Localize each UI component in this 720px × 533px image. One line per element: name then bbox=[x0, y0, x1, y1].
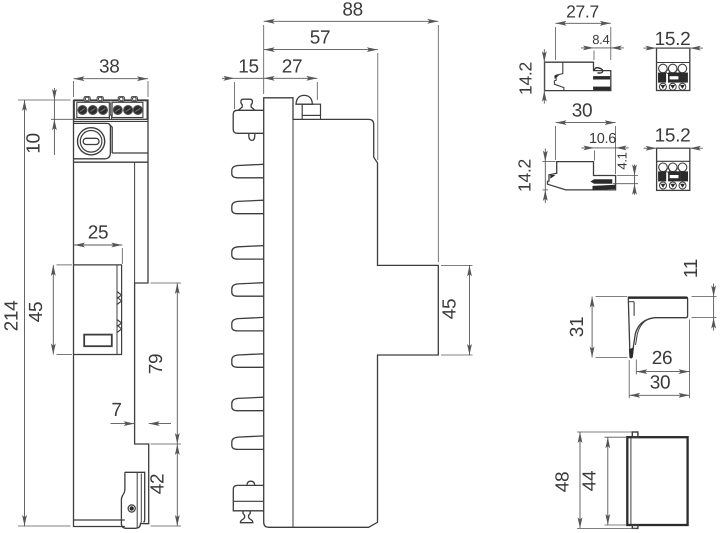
svg-text:27.7: 27.7 bbox=[566, 2, 599, 22]
front view ledge lines bbox=[74, 153, 149, 283]
dimension 14.2 upper bbox=[516, 49, 547, 103]
cooling fin 1 bbox=[232, 164, 264, 178]
cooling fin 6 bbox=[232, 354, 264, 368]
svg-text:25: 25 bbox=[88, 223, 109, 244]
cooling fin 8 bbox=[232, 436, 264, 450]
dimension 57 bbox=[264, 27, 378, 160]
terminal front view lower (15.2) bbox=[657, 148, 690, 190]
label window bbox=[84, 335, 112, 347]
svg-text:31: 31 bbox=[567, 317, 588, 338]
dimension 15 and 27 bbox=[222, 57, 317, 110]
svg-text:10.6: 10.6 bbox=[589, 131, 616, 147]
terminal front view upper (15.2) bbox=[657, 48, 690, 90]
wire clamp port 2 bbox=[97, 97, 103, 102]
DIN rail clip bbox=[121, 472, 148, 528]
terminal screw 2 bbox=[88, 106, 97, 115]
dimension 214 bbox=[2, 100, 71, 526]
svg-text:26: 26 bbox=[652, 348, 673, 369]
svg-text:57: 57 bbox=[310, 27, 331, 48]
dimension 11 bbox=[681, 259, 717, 331]
svg-text:42: 42 bbox=[148, 474, 169, 495]
svg-text:30: 30 bbox=[572, 100, 593, 121]
svg-text:79: 79 bbox=[146, 354, 167, 375]
dimension 25 bbox=[74, 223, 122, 265]
svg-text:11: 11 bbox=[681, 259, 702, 278]
svg-text:8.4: 8.4 bbox=[592, 32, 609, 47]
svg-text:44: 44 bbox=[580, 470, 601, 491]
dimension 45 front bbox=[26, 265, 72, 355]
svg-text:15: 15 bbox=[238, 57, 259, 78]
terminal screw 6 bbox=[133, 106, 142, 115]
dimension 44 bbox=[580, 437, 628, 525]
terminal screw 4 bbox=[113, 106, 122, 115]
side view top terminal tab bbox=[233, 99, 264, 140]
dimension 4.1 bbox=[613, 152, 638, 194]
dimension 26 bbox=[636, 348, 689, 375]
terminal screw 5 bbox=[124, 106, 133, 115]
cooling fin 3 bbox=[232, 246, 264, 260]
terminal face detail upper bbox=[658, 64, 687, 90]
dimension 10.6 bbox=[581, 131, 628, 161]
wire clamp port 1 bbox=[84, 97, 90, 102]
svg-text:45: 45 bbox=[26, 302, 47, 323]
cooling fin 5 bbox=[232, 317, 264, 331]
front view body outline bbox=[74, 100, 149, 527]
dimension 14.2 lower bbox=[515, 149, 556, 203]
dimension 88 bbox=[264, 0, 439, 262]
svg-text:45: 45 bbox=[440, 299, 461, 320]
svg-text:214: 214 bbox=[2, 300, 23, 332]
dimension 27.7 bbox=[555, 2, 610, 60]
svg-text:30: 30 bbox=[650, 373, 671, 394]
svg-text:10: 10 bbox=[24, 133, 45, 154]
plug-in terminal side view (27.7) bbox=[545, 62, 611, 90]
dimension 10 bbox=[24, 88, 80, 155]
base element outline bbox=[627, 432, 687, 528]
svg-text:15.2: 15.2 bbox=[655, 125, 691, 146]
dimension 79 bbox=[146, 283, 181, 444]
terminal face detail lower bbox=[659, 163, 688, 189]
dimension 7 bbox=[111, 400, 172, 426]
svg-text:14.2: 14.2 bbox=[516, 62, 536, 95]
wall bracket bbox=[628, 297, 687, 358]
wire clamp port 4 bbox=[131, 97, 137, 102]
svg-text:38: 38 bbox=[99, 57, 120, 78]
dimension 15.2 lower bbox=[644, 125, 703, 150]
dimension 45 side bbox=[440, 265, 473, 355]
front view terminal block bbox=[74, 101, 149, 122]
dimension 42 bbox=[148, 444, 182, 526]
cooling fin 7 bbox=[232, 397, 264, 411]
inspection window with rotary cap bbox=[74, 123, 113, 158]
svg-text:27: 27 bbox=[282, 57, 303, 78]
svg-text:4.1: 4.1 bbox=[615, 152, 630, 169]
protection module block (45 section) bbox=[74, 265, 123, 355]
svg-text:88: 88 bbox=[342, 0, 363, 20]
svg-text:7: 7 bbox=[111, 400, 121, 421]
dimension 15.2 upper bbox=[644, 29, 703, 50]
dimension 38 bbox=[74, 57, 149, 98]
side view clamp screw dome bbox=[296, 95, 321, 119]
svg-text:15.2: 15.2 bbox=[655, 29, 691, 50]
terminal screw 1 bbox=[78, 106, 87, 115]
plug-in terminal side view (30) bbox=[548, 162, 616, 190]
side view bottom terminal tab bbox=[233, 481, 263, 523]
svg-text:48: 48 bbox=[553, 472, 574, 493]
dimension 30 bracket bbox=[629, 320, 689, 399]
svg-text:14.2: 14.2 bbox=[515, 159, 535, 192]
wire clamp port 3 bbox=[118, 97, 124, 102]
terminal screw 3 bbox=[99, 106, 108, 115]
dimension 8.4 bbox=[581, 32, 624, 60]
dimension 30 bbox=[556, 100, 616, 174]
dimension 31 bbox=[567, 297, 628, 358]
side view body outline bbox=[264, 98, 439, 528]
cooling fin 4 bbox=[232, 283, 264, 297]
dimension 48 bbox=[553, 432, 637, 528]
cooling fin 2 bbox=[232, 200, 264, 214]
